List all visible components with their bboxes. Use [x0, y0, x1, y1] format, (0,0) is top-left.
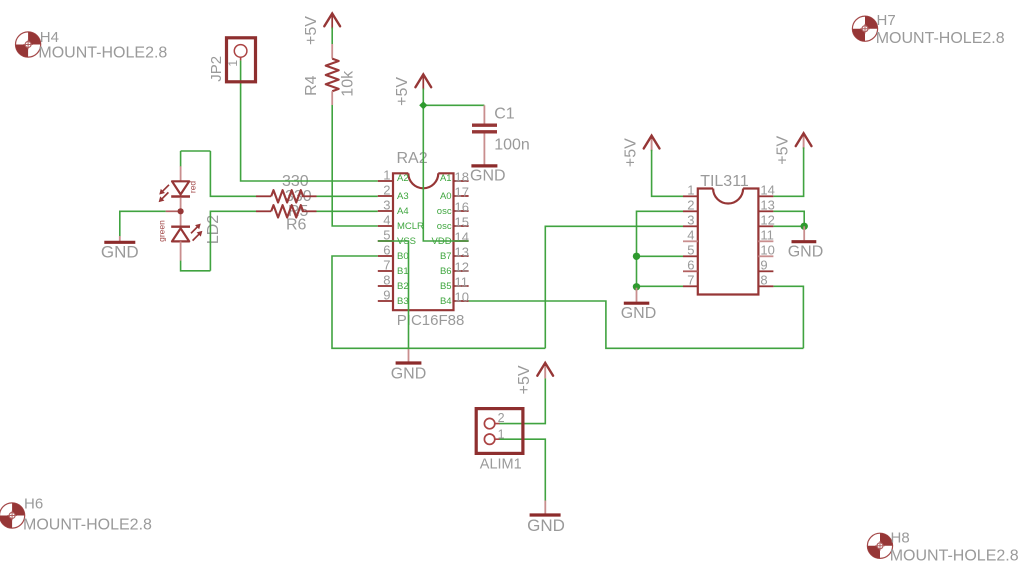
wire ALIM1 pin1 to GND — [499, 439, 545, 501]
svg-text:A4: A4 — [397, 206, 409, 217]
svg-text:GND: GND — [621, 305, 657, 322]
svg-text:B4: B4 — [440, 296, 452, 307]
pin 17 A0 — [454, 195, 469, 197]
wire PIC pin10 B4 to TIL311 pin8 — [469, 286, 804, 348]
svg-text:14: 14 — [760, 182, 774, 197]
svg-text:1: 1 — [687, 182, 694, 197]
pin 15 osc — [454, 225, 469, 227]
pin 2 A3 — [378, 195, 393, 197]
svg-text:7: 7 — [687, 272, 694, 287]
svg-text:ALIM1: ALIM1 — [480, 457, 522, 473]
wire TIL311 pins 2,5,7 to GND — [637, 211, 684, 287]
+5V symbol right of TIL311 — [774, 133, 811, 164]
svg-text:+5V: +5V — [394, 77, 411, 106]
svg-text:B2: B2 — [397, 281, 409, 292]
svg-text:A3: A3 — [397, 191, 409, 202]
green LED of LD2 — [171, 225, 190, 227]
wire R5 to PIC pin2 A3 — [317, 195, 378, 197]
svg-text:+5V: +5V — [303, 16, 320, 45]
svg-text:B0: B0 — [397, 251, 409, 262]
wire +5V to TIL311 pin14 — [773, 147, 803, 196]
svg-text:11: 11 — [760, 227, 774, 242]
svg-text:13: 13 — [455, 244, 469, 259]
pin 16 osc — [454, 210, 469, 212]
wire TIL311 pins 13,12 to GND — [773, 211, 804, 226]
svg-text:osc: osc — [437, 206, 452, 217]
junction TIL pin5 — [633, 253, 640, 260]
pin 1 — [683, 195, 698, 197]
svg-text:+5V: +5V — [622, 138, 639, 167]
junction TIL pin12 — [801, 223, 808, 230]
pin 11 B5 — [454, 285, 469, 287]
mount hole H7 — [852, 12, 1004, 47]
svg-text:18: 18 — [455, 169, 469, 184]
wire LD2 green anode to R6 — [181, 211, 256, 270]
svg-text:A1: A1 — [440, 173, 452, 184]
wire PIC pin6 B0 to TIL311 pin3 — [332, 226, 683, 348]
red LED of LD2 — [180, 166, 182, 181]
mount hole H6 — [0, 496, 152, 534]
svg-text:12: 12 — [760, 212, 774, 227]
svg-text:H7: H7 — [877, 12, 896, 29]
resistor R5 330 — [256, 190, 317, 202]
svg-text:6: 6 — [383, 243, 390, 258]
+5V symbol above ALIM1 — [516, 363, 553, 394]
svg-text:14: 14 — [455, 229, 469, 244]
svg-text:4: 4 — [687, 227, 694, 242]
junction at +5V/C1 — [419, 101, 427, 109]
svg-text:12: 12 — [455, 259, 469, 274]
svg-text:MOUNT-HOLE2.8: MOUNT-HOLE2.8 — [38, 45, 167, 62]
svg-text:16: 16 — [455, 199, 469, 214]
pin 6 — [683, 270, 698, 272]
svg-text:15: 15 — [455, 214, 469, 229]
pin 7 — [683, 285, 698, 287]
svg-text:GND: GND — [527, 516, 565, 535]
svg-text:2: 2 — [687, 197, 694, 212]
svg-text:GND: GND — [788, 244, 824, 261]
resistor R6 330 — [256, 205, 317, 217]
svg-text:R6: R6 — [286, 216, 307, 233]
svg-text:9: 9 — [760, 257, 767, 272]
svg-text:4: 4 — [383, 213, 390, 228]
pin 11 — [758, 240, 773, 242]
svg-text:3: 3 — [383, 198, 390, 213]
svg-text:H8: H8 — [891, 529, 910, 546]
resistor R4 10k — [303, 44, 357, 105]
svg-text:JP2: JP2 — [208, 56, 225, 82]
pin 13 — [758, 210, 773, 212]
svg-text:17: 17 — [455, 184, 469, 199]
svg-text:GND: GND — [470, 167, 506, 184]
svg-text:5: 5 — [687, 242, 694, 257]
svg-text:B3: B3 — [397, 296, 409, 307]
wire LD2 common to GND — [120, 211, 166, 236]
pin 12 — [758, 225, 773, 227]
pin 10 B4 — [454, 300, 469, 302]
+5V symbol left of TIL311 — [622, 136, 659, 167]
capacitor C1 100n — [472, 105, 530, 164]
wire LD2 red anode to R5 — [181, 151, 256, 196]
connector JP2 — [208, 38, 255, 82]
+5V symbol above PIC VDD — [394, 74, 431, 105]
svg-text:C1: C1 — [494, 106, 515, 123]
svg-text:MOUNT-HOLE2.8: MOUNT-HOLE2.8 — [876, 30, 1005, 47]
svg-text:GND: GND — [101, 242, 139, 261]
ground GND (C1) — [470, 166, 506, 184]
pin 1 A2 — [378, 180, 393, 182]
wire PIC pin5 VSS to GND — [378, 241, 409, 348]
svg-text:+5V: +5V — [516, 365, 533, 394]
LED LD2 dual (red/green) — [157, 166, 223, 261]
svg-text:2: 2 — [383, 183, 390, 198]
svg-text:GND: GND — [391, 366, 427, 383]
svg-text:6: 6 — [687, 257, 694, 272]
svg-text:1: 1 — [383, 168, 390, 183]
svg-text:B6: B6 — [440, 266, 452, 277]
svg-text:B5: B5 — [440, 281, 452, 292]
pin 8 B2 — [378, 285, 393, 287]
pin 9 — [758, 270, 773, 272]
svg-text:8: 8 — [383, 273, 390, 288]
wire +5V to PIC pin14 VDD — [423, 89, 468, 242]
pin 8 — [758, 285, 773, 287]
svg-text:H4: H4 — [40, 29, 59, 46]
svg-text:B7: B7 — [440, 251, 452, 262]
wire R6 to PIC pin3 A4 — [317, 210, 378, 212]
svg-text:R4: R4 — [303, 75, 320, 96]
ground GND (ALIM1) — [527, 501, 565, 536]
mount hole H4 — [16, 29, 168, 62]
svg-text:1: 1 — [226, 60, 240, 67]
pin 7 B1 — [378, 270, 393, 272]
ground GND (PIC VSS) — [391, 348, 427, 382]
pin 6 B0 — [378, 255, 393, 257]
svg-text:9: 9 — [383, 288, 390, 303]
pin 4 — [683, 240, 698, 242]
svg-text:8: 8 — [760, 272, 767, 287]
ground GND (TIL right) — [788, 226, 824, 260]
pin 18 A1 — [454, 180, 469, 182]
svg-text:13: 13 — [760, 197, 774, 212]
wire +5V branch to C1 — [423, 104, 484, 106]
svg-text:A0: A0 — [440, 191, 452, 202]
pin 2 — [683, 210, 698, 212]
svg-text:TIL311: TIL311 — [700, 173, 749, 190]
ground GND (TIL left) — [621, 288, 657, 322]
svg-text:10: 10 — [760, 242, 774, 257]
svg-text:100n: 100n — [494, 137, 530, 154]
svg-text:10k: 10k — [340, 70, 357, 97]
svg-text:2: 2 — [498, 411, 505, 425]
wire +5V to TIL311 pin1 — [652, 150, 683, 197]
pin 9 B3 — [378, 300, 393, 302]
svg-text:3: 3 — [687, 212, 694, 227]
IC U1 PIC16F88 — [378, 150, 469, 329]
svg-text:1: 1 — [498, 427, 505, 441]
svg-text:B1: B1 — [397, 266, 409, 277]
svg-text:MOUNT-HOLE2.8: MOUNT-HOLE2.8 — [890, 547, 1019, 564]
svg-text:osc: osc — [437, 221, 452, 232]
wire ALIM1 pin2 to +5V — [499, 378, 545, 423]
svg-text:7: 7 — [383, 258, 390, 273]
pin 14 — [758, 195, 773, 197]
wire JP2 pin1 to PIC pin1 (A2) — [241, 60, 378, 181]
svg-text:11: 11 — [455, 274, 469, 289]
svg-text:LD2: LD2 — [205, 215, 222, 244]
wire +5V to R4 — [331, 28, 333, 45]
ground GND (LED) — [101, 236, 139, 261]
wire R4 to PIC pin4 MCLR — [332, 105, 378, 226]
pin 4 MCLR — [378, 225, 393, 227]
pin lead LD2 common — [166, 210, 181, 212]
pin 3 A4 — [378, 210, 393, 212]
mount hole H8 — [867, 529, 1018, 564]
svg-text:MCLR: MCLR — [397, 221, 424, 232]
svg-text:H6: H6 — [24, 496, 43, 513]
junction LD2 common — [178, 208, 184, 214]
svg-text:green: green — [157, 220, 167, 242]
pin 12 B6 — [454, 270, 469, 272]
pin 5 VSS — [378, 240, 393, 242]
svg-text:A2: A2 — [397, 173, 409, 184]
svg-text:MOUNT-HOLE2.8: MOUNT-HOLE2.8 — [23, 516, 152, 533]
svg-text:+5V: +5V — [774, 136, 791, 165]
pin 3 — [683, 225, 698, 227]
connector ALIM1 — [476, 409, 523, 473]
+5V symbol above R4 — [303, 14, 340, 45]
svg-text:PIC16F88: PIC16F88 — [397, 312, 465, 329]
svg-text:10: 10 — [455, 289, 469, 304]
IC U2 TIL311 — [683, 173, 775, 295]
pin 5 — [683, 255, 698, 257]
pin 10 — [758, 255, 773, 257]
svg-text:red: red — [188, 181, 198, 194]
pin 14 VDD — [454, 240, 469, 242]
junction TIL pin7 — [633, 283, 640, 290]
pin 13 B7 — [454, 255, 469, 257]
